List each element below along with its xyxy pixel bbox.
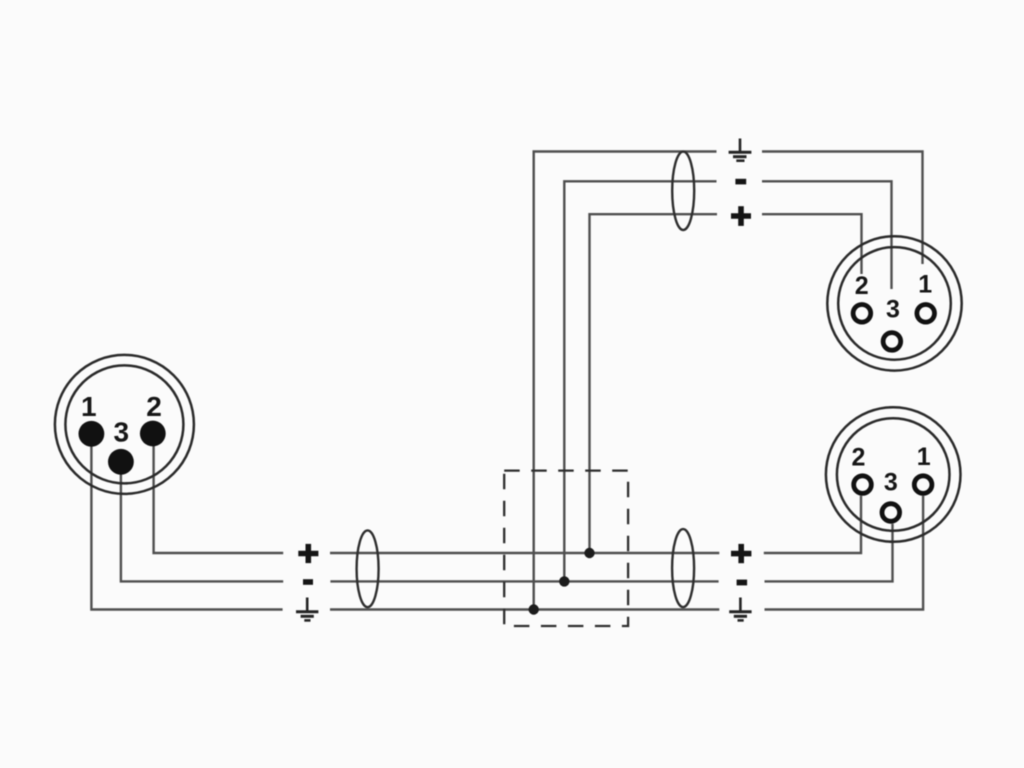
wire: cold tap to top branch <box>564 181 891 581</box>
wire: male pin 2 to + row (hot) <box>154 434 861 554</box>
svg-text:3: 3 <box>884 468 898 496</box>
polarity symbol + (bottom right) <box>731 544 751 563</box>
ground symbol (bottom right) <box>729 598 751 621</box>
ground symbol (top right) <box>729 139 752 161</box>
female XLR (top) pin 1 <box>917 305 935 323</box>
polarity symbol + (bottom left) <box>298 544 318 563</box>
male XLR connector body (left) <box>55 355 194 494</box>
female XLR connector body (top right) <box>827 236 961 370</box>
svg-text:2: 2 <box>852 443 866 471</box>
female XLR (top) pin 3 <box>883 333 901 351</box>
polarity symbol - (bottom right) <box>737 580 748 586</box>
female XLR (bottom) pin 2 <box>854 476 872 494</box>
svg-text:3: 3 <box>886 296 900 324</box>
male XLR pin 3 <box>108 449 134 475</box>
junction dot: ground <box>529 604 539 614</box>
polarity symbol - (bottom left) <box>303 579 313 585</box>
wire: male pin 3 to - row (cold) <box>121 462 893 582</box>
svg-text:1: 1 <box>81 391 97 422</box>
cable jacket ellipse: top branch <box>672 152 694 230</box>
polarity symbol - (top right) <box>735 179 746 185</box>
svg-text:3: 3 <box>114 417 130 448</box>
female XLR (bottom) pin 3 <box>882 504 900 522</box>
junction box (dashed) <box>504 471 628 626</box>
cable jacket ellipse: bottom right <box>672 529 694 607</box>
wire: hot tap to top branch <box>590 214 862 553</box>
svg-text:2: 2 <box>855 272 869 300</box>
male XLR pin 2 <box>140 421 166 447</box>
svg-text:1: 1 <box>917 443 931 471</box>
junction dot: hot <box>584 548 594 558</box>
wire: ground tap to top branch <box>534 152 923 610</box>
ground symbol (bottom left) <box>296 598 318 621</box>
wire: male pin 1 to ground row (shield) <box>91 434 923 610</box>
male XLR pin 1 <box>79 421 105 447</box>
svg-text:1: 1 <box>918 271 932 299</box>
polarity symbol + (top right) <box>731 206 751 226</box>
svg-text:2: 2 <box>146 391 162 422</box>
female XLR (top) pin 2 <box>853 305 871 323</box>
junction dot: cold <box>559 576 569 586</box>
female XLR (bottom) pin 1 <box>914 476 932 494</box>
cable jacket ellipse: bottom left <box>357 530 379 607</box>
female XLR connector body (bottom right) <box>826 407 961 542</box>
